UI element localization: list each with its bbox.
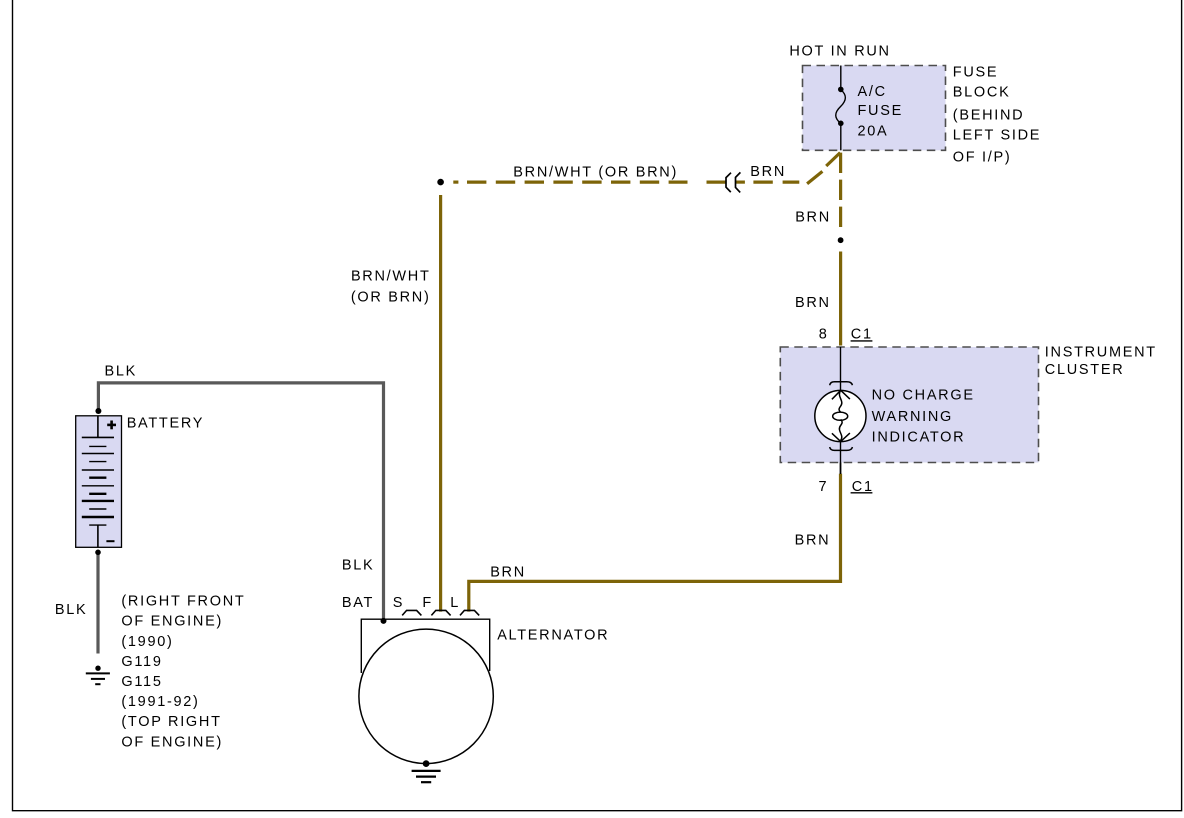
svg-text:G119: G119: [121, 654, 162, 670]
svg-text:FUSE: FUSE: [858, 103, 903, 119]
svg-text:BRN: BRN: [795, 210, 831, 226]
svg-text:(OR BRN): (OR BRN): [351, 289, 431, 305]
svg-text:CLUSTER: CLUSTER: [1045, 362, 1125, 378]
svg-text:BATTERY: BATTERY: [127, 416, 204, 432]
svg-text:(RIGHT FRONT: (RIGHT FRONT: [121, 594, 245, 610]
svg-text:BRN: BRN: [795, 532, 831, 548]
svg-text:FUSE: FUSE: [953, 64, 998, 80]
svg-text:S: S: [393, 595, 404, 611]
svg-text:BRN: BRN: [795, 295, 831, 311]
svg-text:(BEHIND: (BEHIND: [953, 107, 1025, 123]
svg-text:F: F: [422, 595, 433, 611]
svg-text:BLOCK: BLOCK: [953, 84, 1011, 100]
svg-text:C1: C1: [852, 479, 874, 495]
svg-text:BRN: BRN: [750, 164, 786, 180]
svg-text:BRN/WHT: BRN/WHT: [351, 268, 431, 284]
svg-text:8: 8: [819, 326, 829, 342]
svg-text:(1990): (1990): [121, 634, 173, 650]
svg-text:HOT IN RUN: HOT IN RUN: [789, 43, 890, 59]
svg-text:BAT: BAT: [342, 595, 374, 611]
svg-text:WARNING: WARNING: [872, 409, 953, 425]
svg-text:C1: C1: [851, 326, 873, 342]
svg-text:NO CHARGE: NO CHARGE: [872, 388, 975, 404]
svg-text:(TOP RIGHT: (TOP RIGHT: [121, 714, 221, 730]
svg-text:INSTRUMENT: INSTRUMENT: [1045, 345, 1157, 361]
svg-text:OF ENGINE): OF ENGINE): [121, 614, 223, 630]
svg-text:LEFT SIDE: LEFT SIDE: [953, 128, 1041, 144]
svg-text:7: 7: [819, 479, 829, 495]
svg-text:BLK: BLK: [105, 363, 138, 379]
svg-text:BRN: BRN: [490, 564, 526, 580]
svg-text:BLK: BLK: [55, 602, 88, 618]
svg-text:L: L: [450, 595, 460, 611]
svg-text:20A: 20A: [858, 124, 889, 140]
svg-text:BRN/WHT (OR BRN): BRN/WHT (OR BRN): [513, 164, 678, 180]
svg-text:A/C: A/C: [858, 84, 887, 100]
svg-text:ALTERNATOR: ALTERNATOR: [497, 627, 609, 643]
svg-text:INDICATOR: INDICATOR: [872, 430, 966, 446]
svg-text:(1991-92): (1991-92): [121, 694, 199, 710]
svg-text:G115: G115: [121, 674, 162, 690]
svg-text:BLK: BLK: [342, 558, 375, 574]
svg-text:OF ENGINE): OF ENGINE): [121, 734, 223, 750]
svg-text:OF I/P): OF I/P): [953, 150, 1012, 166]
